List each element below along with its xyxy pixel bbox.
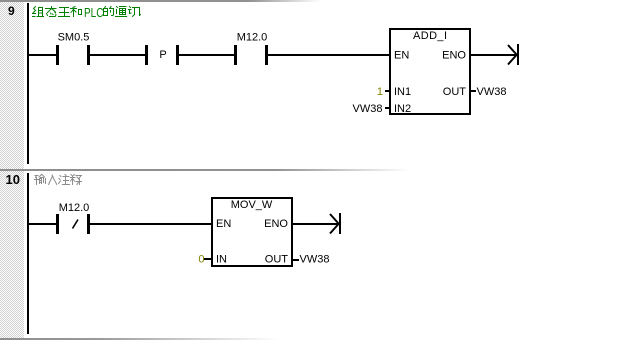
svg-text:ADD_I: ADD_I bbox=[413, 30, 447, 42]
svg-text:VW38: VW38 bbox=[300, 254, 330, 266]
glyph 态 bbox=[46, 7, 57, 17]
glyph 通 bbox=[116, 7, 127, 17]
wire rail to contact SM0.5 bbox=[28, 54, 56, 56]
svg-text:SM0.5: SM0.5 bbox=[58, 32, 90, 44]
glyph 注 bbox=[59, 175, 70, 185]
network 9 title: 组态王和PLC的通讯 (green, hand-drawn CJK) bbox=[33, 7, 141, 17]
svg-text:9: 9 bbox=[8, 4, 15, 18]
arrow rung continuation network 10 bbox=[330, 213, 341, 234]
svg-text:VW38: VW38 bbox=[477, 86, 507, 98]
svg-text:MOV_W: MOV_W bbox=[231, 199, 273, 211]
svg-text:IN: IN bbox=[216, 254, 227, 266]
wire M12.0 to box ADD_I bbox=[268, 54, 389, 56]
svg-text:PLC: PLC bbox=[84, 5, 104, 20]
svg-text:ENO: ENO bbox=[264, 218, 288, 230]
contact P positive edge bbox=[145, 45, 148, 65]
glyph 入 bbox=[49, 175, 57, 185]
glyph 释 bbox=[71, 175, 82, 185]
svg-text:P: P bbox=[159, 49, 166, 61]
glyph 和 bbox=[71, 7, 82, 17]
wire P to contact M12.0 bbox=[179, 54, 234, 56]
svg-text:EN: EN bbox=[394, 50, 409, 62]
svg-text:OUT: OUT bbox=[265, 254, 289, 266]
network separator bottom bbox=[0, 338, 280, 340]
contact M12.0 network 9 bbox=[234, 45, 237, 65]
svg-text:M12.0: M12.0 bbox=[59, 202, 90, 214]
glyph 组 bbox=[33, 7, 44, 17]
svg-text:OUT: OUT bbox=[443, 86, 467, 98]
wire ENO to arrow network 9 bbox=[471, 54, 517, 56]
left power rail network 10 bbox=[27, 173, 29, 334]
contact M12.0 network 10 (normally closed) bbox=[56, 214, 59, 234]
svg-text:IN1: IN1 bbox=[394, 86, 411, 98]
svg-text:IN2: IN2 bbox=[394, 103, 411, 115]
wire ENO to arrow network 10 bbox=[293, 223, 339, 225]
arrow rung continuation network 9 bbox=[508, 44, 519, 65]
contact SM0.5 bbox=[56, 45, 59, 65]
svg-text:M12.0: M12.0 bbox=[237, 32, 268, 44]
glyph 讯 bbox=[129, 7, 141, 17]
svg-text:VW38: VW38 bbox=[353, 103, 383, 115]
glyph 的 bbox=[104, 7, 114, 16]
svg-text:1: 1 bbox=[377, 86, 383, 98]
network separator top (above network 9) bbox=[0, 0, 320, 2]
left power rail network 9 bbox=[27, 3, 29, 164]
wire M12.0 to box MOV_W bbox=[90, 223, 211, 225]
glyph 输 bbox=[35, 175, 46, 185]
svg-text:10: 10 bbox=[6, 172, 20, 187]
wire rail to contact M12.0 network 10 bbox=[28, 223, 56, 225]
box ADD_I bbox=[390, 29, 470, 114]
network 10 title: 输入注释 (gray, hand-drawn CJK) bbox=[35, 175, 82, 185]
network separator between 9 and 10 bbox=[0, 169, 410, 171]
svg-text:ENO: ENO bbox=[442, 50, 466, 62]
network 10 gutter bbox=[0, 171, 24, 338]
glyph 王 bbox=[59, 8, 70, 17]
network 9 gutter bbox=[0, 2, 24, 169]
normally closed slash network 10 bbox=[73, 220, 79, 229]
wire SM0.5 to contact P bbox=[90, 54, 145, 56]
box MOV_W bbox=[212, 198, 292, 266]
svg-text:EN: EN bbox=[216, 218, 231, 230]
svg-text:0: 0 bbox=[198, 254, 204, 266]
